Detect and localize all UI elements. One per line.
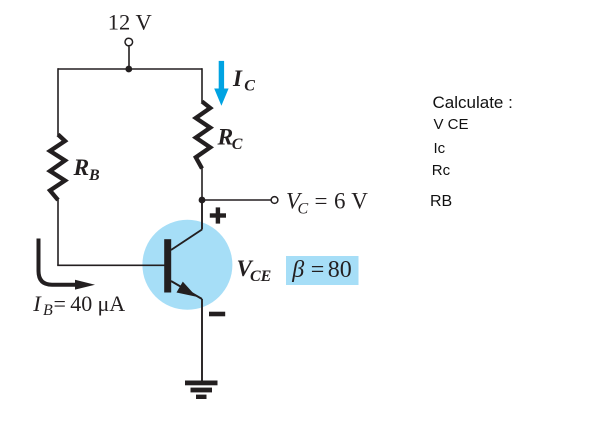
svg-text:CE: CE [250, 268, 271, 285]
svg-text:=: = [315, 189, 328, 214]
svg-text:B: B [88, 167, 100, 184]
svg-text:6: 6 [334, 189, 346, 214]
svg-text:R: R [73, 155, 90, 181]
svg-text:I: I [232, 66, 243, 91]
svg-text:B: B [43, 302, 53, 319]
svg-text:=: = [54, 291, 66, 316]
svg-text:12 V: 12 V [108, 10, 152, 35]
svg-text:V: V [351, 189, 368, 214]
svg-text:=: = [311, 257, 325, 283]
svg-text:C: C [232, 136, 243, 153]
svg-text:μA: μA [98, 291, 126, 316]
svg-text:80: 80 [328, 257, 352, 283]
svg-text:β: β [291, 257, 304, 283]
svg-text:40: 40 [70, 291, 92, 316]
svg-text:C: C [298, 201, 309, 218]
svg-text:C: C [244, 78, 255, 95]
svg-text:R: R [217, 124, 234, 150]
svg-text:I: I [32, 291, 42, 316]
